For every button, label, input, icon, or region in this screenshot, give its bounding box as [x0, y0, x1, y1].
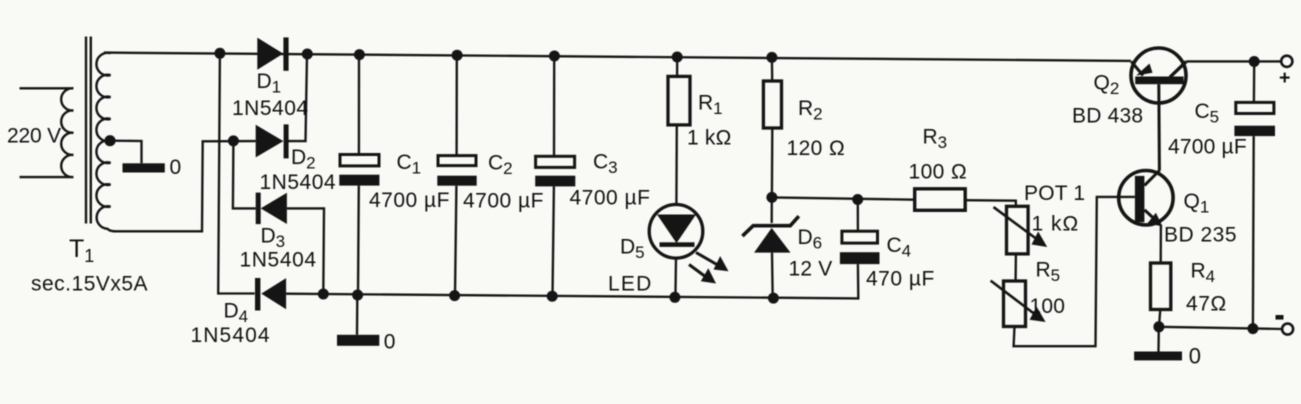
svg-text:D6: D6	[798, 226, 823, 253]
node dot C5 top	[1249, 56, 1260, 67]
svg-text:R3: R3	[923, 126, 948, 153]
svg-text:POT 1: POT 1	[1024, 182, 1085, 205]
svg-text:D3: D3	[261, 225, 286, 252]
diode D4	[255, 278, 286, 311]
node dot R2 bottom	[766, 192, 777, 203]
node dot D5 bottom	[669, 292, 680, 303]
zener diode D6	[742, 197, 798, 298]
node dot C1 top	[354, 49, 365, 60]
wire R5 bottom to Q1 base	[1014, 197, 1135, 346]
ground at C1	[337, 295, 379, 346]
svg-text:T1: T1	[69, 235, 94, 266]
svg-text:R1: R1	[698, 92, 723, 119]
wire D3 anode down to bottom rail	[287, 208, 324, 294]
node dot center tap	[104, 135, 115, 146]
node dot D6 bottom	[768, 293, 779, 304]
svg-text:0: 0	[1189, 344, 1201, 369]
wire R2 bottom to C4 and R3	[772, 197, 915, 199]
svg-text:1N5404: 1N5404	[191, 324, 271, 347]
wire negative rail to - terminal	[1159, 327, 1282, 329]
svg-text:100 Ω: 100 Ω	[909, 161, 968, 184]
svg-text:0: 0	[384, 331, 396, 354]
wire vertical from top rail to D4 cathode	[218, 53, 254, 293]
svg-text:1N5404: 1N5404	[240, 249, 317, 272]
capacitor C3	[535, 56, 575, 296]
transistor Q1	[1119, 170, 1173, 263]
svg-text:BD 235: BD 235	[1164, 224, 1237, 247]
svg-text:+: +	[1279, 67, 1290, 89]
svg-text:LED: LED	[608, 273, 652, 296]
capacitor C2	[437, 55, 476, 295]
resistor R3	[915, 189, 1016, 211]
capacitor C1	[339, 55, 379, 295]
wire top rail from secondary top to Q2	[104, 53, 1131, 61]
node dot bottom rail at D3 branch	[318, 289, 329, 300]
wire from node to D3 cathode	[233, 141, 256, 209]
svg-text:12 V: 12 V	[789, 258, 833, 281]
LED D5 emission arrows	[689, 253, 729, 284]
node dot R4 bottom / ground	[1153, 321, 1164, 332]
resistor R2	[763, 57, 781, 197]
node dot at D2 anode / D3 cathode branch	[228, 135, 239, 146]
+ output terminal	[1281, 56, 1292, 67]
node dot C4 top	[852, 194, 863, 205]
svg-text:C2: C2	[488, 152, 513, 179]
svg-text:4700 µF: 4700 µF	[570, 187, 651, 210]
svg-text:R2: R2	[798, 97, 823, 124]
diode D1	[257, 37, 288, 70]
svg-text:47Ω: 47Ω	[1186, 293, 1227, 316]
svg-text:1N5404: 1N5404	[232, 97, 309, 120]
diode D2	[256, 124, 289, 158]
svg-text:1 kΩ: 1 kΩ	[1032, 213, 1080, 236]
svg-text:Q2: Q2	[1094, 72, 1120, 99]
svg-text:R5: R5	[1036, 259, 1061, 286]
node dot R2 top	[766, 52, 777, 63]
node dot C2 top	[452, 50, 463, 61]
svg-text:D4: D4	[224, 300, 249, 327]
node dot C5 bottom	[1247, 323, 1258, 334]
node dot C3 bottom	[547, 291, 558, 302]
node dot at top rail x220 (secondary top / D4 cathode branch)	[214, 48, 225, 59]
svg-text:100: 100	[1030, 295, 1066, 318]
svg-text:0: 0	[170, 156, 182, 179]
wire secondary bottom terminal to D2 anode row	[113, 141, 256, 231]
resistor R4	[1151, 263, 1171, 327]
svg-text:220 V: 220 V	[7, 125, 61, 148]
svg-text:D5: D5	[620, 236, 645, 263]
transistor Q2	[1131, 48, 1186, 171]
node dot R1 top	[672, 52, 683, 63]
node dot at top rail x307 (D1/D2 cathodes)	[302, 49, 313, 60]
wire top rail right of Q2 to + terminal	[1186, 60, 1281, 62]
ground center tap	[111, 141, 165, 173]
ground at R4	[1134, 327, 1182, 361]
LED D5	[649, 205, 703, 298]
potentiometer POT1	[994, 206, 1048, 281]
svg-text:C4: C4	[887, 234, 912, 261]
svg-text:1N5404: 1N5404	[260, 171, 337, 194]
resistor R1	[668, 57, 690, 204]
svg-text:4700 µF: 4700 µF	[1168, 136, 1247, 159]
capacitor C4	[840, 200, 880, 265]
svg-text:C1: C1	[397, 151, 422, 178]
svg-text:4700 µF: 4700 µF	[463, 190, 544, 213]
wire D2 cathode up to top rail	[288, 54, 308, 141]
diode D3	[256, 193, 287, 225]
transformer T1 secondary winding	[96, 53, 115, 231]
svg-text:120 Ω: 120 Ω	[787, 137, 846, 160]
transformer T1 core	[86, 37, 91, 224]
node dot C2 bottom	[449, 290, 460, 301]
rheostat R5	[991, 281, 1046, 327]
svg-text:1 kΩ: 1 kΩ	[687, 127, 732, 150]
svg-text:D1: D1	[257, 70, 282, 97]
- output terminal	[1282, 324, 1293, 335]
capacitor C5	[1234, 62, 1275, 329]
svg-text:4700 µF: 4700 µF	[369, 189, 450, 212]
svg-text:C3: C3	[593, 151, 618, 178]
transformer T1 primary winding	[20, 88, 74, 177]
svg-text:sec.15Vx5A: sec.15Vx5A	[31, 273, 148, 296]
svg-text:BD 438: BD 438	[1072, 105, 1143, 128]
svg-text:470 µF: 470 µF	[866, 268, 935, 291]
svg-text:Q1: Q1	[1184, 190, 1210, 217]
svg-text:C5: C5	[1195, 100, 1220, 127]
node dot C1 bottom	[352, 290, 363, 301]
node dot C3 top	[549, 51, 560, 62]
svg-text:R4: R4	[1191, 260, 1216, 287]
wire bottom rail (0V) from D4 to C4	[286, 264, 858, 298]
svg-text:D2: D2	[291, 146, 316, 173]
label - terminal	[1276, 315, 1284, 320]
